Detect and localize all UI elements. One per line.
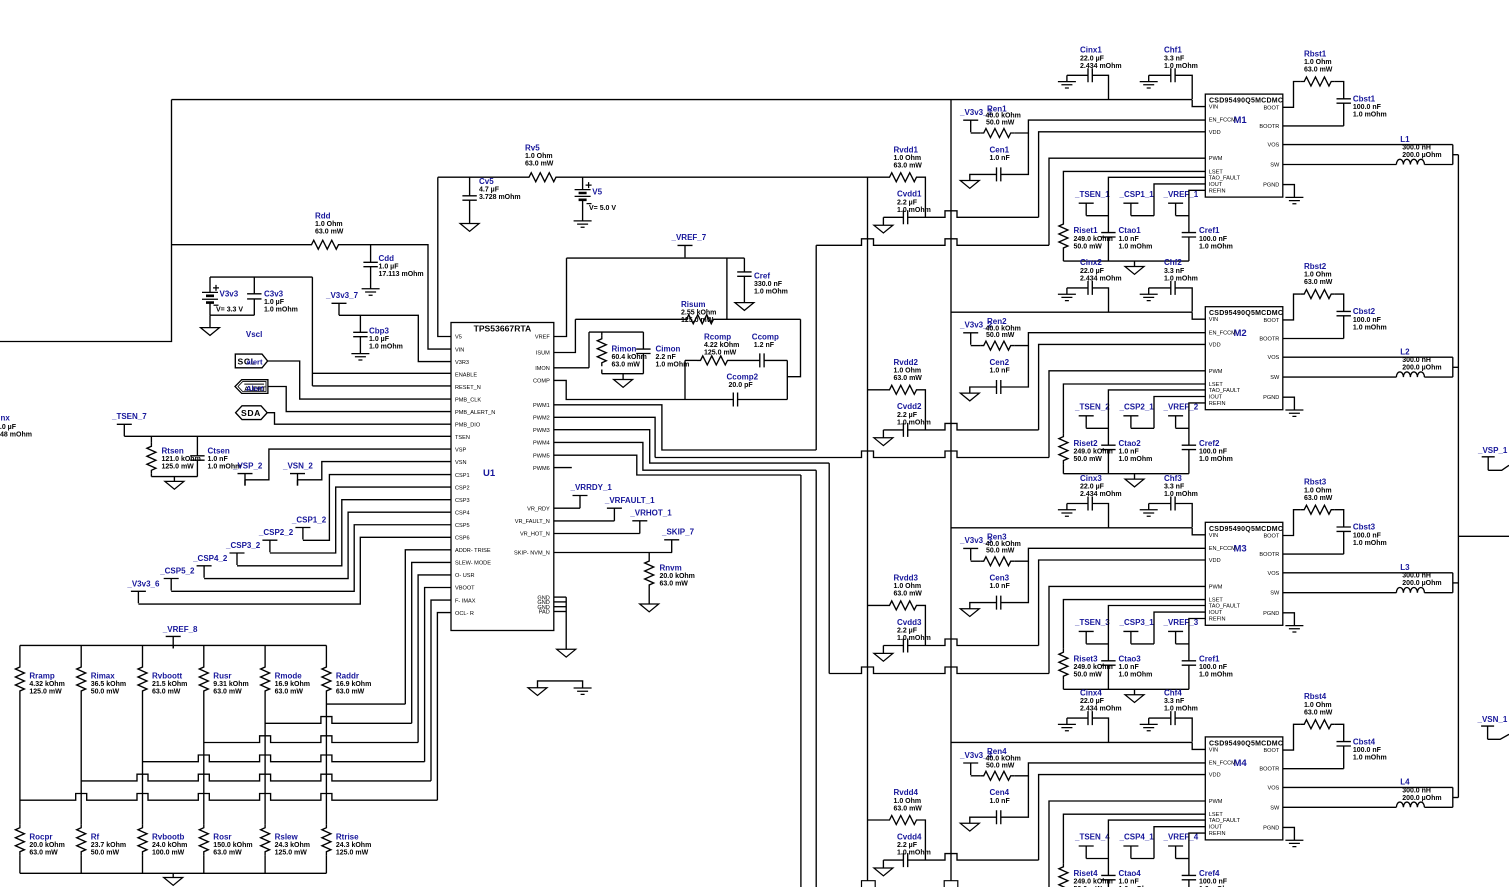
svg-text:Ctao3: Ctao3: [1119, 654, 1142, 663]
net flag _V3v3 (channel 3): [963, 548, 978, 560]
capacitor Cref: [743, 258, 745, 272]
svg-text:VSN: VSN: [455, 460, 467, 466]
svg-text:1.0 mOhm: 1.0 mOhm: [1119, 672, 1153, 679]
svg-text:EN_FCCM: EN_FCCM: [1209, 118, 1236, 124]
svg-text:VDD: VDD: [1209, 342, 1221, 348]
svg-text:CSP2: CSP2: [455, 485, 470, 491]
svg-text:Chf1: Chf1: [1164, 46, 1182, 55]
svg-text:17.113 mOhm: 17.113 mOhm: [379, 271, 424, 278]
capacitor Cvdd2: [883, 429, 903, 431]
capacitor Cinx1: [1067, 74, 1088, 76]
svg-text:9.31 kOhm: 9.31 kOhm: [213, 681, 248, 688]
svg-text:VDD: VDD: [1209, 558, 1221, 564]
wire V5 bus: [867, 177, 869, 880]
wire VIN rail channel 3: [951, 527, 1192, 529]
svg-text:Ctao2: Ctao2: [1119, 439, 1142, 448]
wire RESET_N: [312, 385, 451, 387]
wire PWM3 route: [554, 430, 829, 463]
capacitor Ctao3: [1108, 606, 1205, 661]
port SCL: [235, 354, 267, 368]
svg-text:O- USR: O- USR: [455, 573, 475, 579]
capacitor Ctsen: [196, 436, 198, 456]
wire CSP1: [303, 475, 451, 541]
svg-text:Cbst3: Cbst3: [1353, 523, 1376, 532]
ground for Cen1: [960, 181, 979, 189]
ground for Cvdd2: [882, 430, 884, 438]
svg-text:SDA: SDA: [241, 408, 261, 418]
svg-text:PAD: PAD: [539, 610, 550, 616]
resistor Rnvm: [648, 553, 650, 558]
svg-text:Rramp: Rramp: [29, 671, 54, 680]
capacitor Cinx3: [1067, 503, 1088, 505]
svg-text:Cvdd4: Cvdd4: [897, 832, 922, 841]
capacitor Chf2: [1149, 287, 1171, 289]
capacitor Chf1: [1149, 74, 1171, 76]
svg-text:1.0 mOhm: 1.0 mOhm: [1164, 275, 1198, 282]
ground for Cv5: [460, 224, 479, 232]
svg-text:1.0 mOhm: 1.0 mOhm: [1119, 456, 1153, 463]
svg-text:Cref2: Cref2: [1199, 439, 1220, 448]
ground for Rimon/Cimon: [622, 374, 624, 380]
svg-text:_TSEN_7: _TSEN_7: [111, 412, 147, 421]
svg-text:50.0 mW: 50.0 mW: [986, 120, 1015, 127]
IC U1 TPS53667RTA body: [451, 323, 554, 631]
svg-text:1.0 mOhm: 1.0 mOhm: [656, 362, 690, 369]
wire Rimon box bottom: [602, 373, 644, 375]
net flag _VRFAULT_1: [607, 508, 622, 521]
svg-text:3.3 nF: 3.3 nF: [1164, 698, 1185, 705]
svg-text:2.434 mOhm: 2.434 mOhm: [1080, 491, 1122, 498]
svg-text:Rvdd2: Rvdd2: [894, 358, 919, 367]
svg-text:3.728 mOhm: 3.728 mOhm: [479, 194, 521, 201]
svg-text:_CSP2_2: _CSP2_2: [258, 528, 294, 537]
svg-text:50.0 mW: 50.0 mW: [1074, 243, 1103, 250]
svg-text:Riset2: Riset2: [1074, 439, 1099, 448]
svg-text:PMB_ALERT_N: PMB_ALERT_N: [455, 410, 495, 416]
net flag _V3v3 (channel 2): [963, 333, 978, 345]
svg-text:2.434 mOhm: 2.434 mOhm: [1080, 706, 1122, 713]
svg-text:24.3 kOhm: 24.3 kOhm: [275, 842, 310, 849]
svg-text:1.0 nF: 1.0 nF: [1119, 664, 1140, 671]
svg-text:BOOTR: BOOTR: [1259, 337, 1279, 343]
wire column Raddr down: [325, 695, 327, 825]
svg-text:_TSEN_3: _TSEN_3: [1074, 618, 1110, 627]
svg-text:3.3 nF: 3.3 nF: [1164, 55, 1185, 62]
net flag _VREF_1: [1168, 203, 1183, 215]
svg-text:63.0 mW: 63.0 mW: [894, 163, 923, 170]
svg-text:Vscl: Vscl: [246, 330, 262, 339]
svg-text:REFIN: REFIN: [1209, 831, 1226, 837]
resistor Rv5: [526, 173, 560, 182]
wire VSP_1: [1488, 465, 1509, 470]
svg-text:Cbst2: Cbst2: [1353, 307, 1376, 316]
svg-text:V5: V5: [455, 335, 462, 341]
resistor Ren3: [971, 560, 981, 562]
capacitor Cbst2: [1335, 294, 1344, 311]
svg-text:IOUT: IOUT: [1209, 825, 1223, 831]
svg-text:EN_FCCM: EN_FCCM: [1209, 546, 1236, 552]
resistor Rimax: [80, 645, 82, 663]
ground for Cvdd3: [882, 646, 884, 654]
wire ALERT to PMB_ALERT_N: [268, 387, 451, 412]
svg-text:Rvdd3: Rvdd3: [894, 574, 919, 583]
wire comp left node: [684, 360, 686, 399]
resistor Riset2: [1063, 384, 1205, 433]
resistor Rosr: [199, 824, 208, 855]
svg-text:Rbst1: Rbst1: [1304, 49, 1327, 58]
svg-text:1.0 Ohm: 1.0 Ohm: [894, 798, 922, 805]
wire VR_HOT_N: [554, 533, 640, 535]
resistor Risum: [683, 315, 717, 324]
svg-text:2.2 nF: 2.2 nF: [656, 354, 677, 361]
wire comp right node: [786, 360, 788, 399]
svg-text:VDD: VDD: [1209, 773, 1221, 779]
svg-text:200.0 µOhm: 200.0 µOhm: [1402, 152, 1441, 159]
ground for Cen4: [960, 823, 979, 831]
wire U1 GND stubs: [554, 596, 566, 598]
wire PWM2 route: [554, 417, 655, 457]
svg-text:63.0 mW: 63.0 mW: [660, 581, 689, 588]
svg-text:Cref4: Cref4: [1199, 869, 1220, 878]
wire IOUT channel 3: [1154, 612, 1205, 644]
wire Ccomp2 right: [737, 399, 787, 401]
voltage source V3v3: [209, 277, 211, 292]
wire CSP4: [204, 512, 451, 578]
svg-text:50.0 mW: 50.0 mW: [986, 762, 1015, 769]
wire VREF_7 to Risum: [726, 258, 728, 319]
capacitor Cen2: [970, 387, 997, 393]
svg-text:2.2 µF: 2.2 µF: [897, 199, 918, 206]
ground for Chf1: [1148, 75, 1150, 81]
port SDA: [236, 406, 268, 420]
resistor Rslew: [261, 824, 270, 855]
resistor Rcomp: [685, 359, 697, 361]
svg-text:REFIN: REFIN: [1209, 617, 1226, 623]
wire VIN rail channel 2: [951, 311, 1192, 313]
svg-text:VBOOT: VBOOT: [455, 586, 475, 592]
wire divider bottom rail: [20, 872, 327, 874]
svg-text:VR_FAULT_N: VR_FAULT_N: [515, 519, 550, 525]
svg-text:1.0 nF: 1.0 nF: [990, 368, 1011, 375]
wire O-USR to divider: [418, 575, 451, 743]
capacitor Cvdd3: [883, 645, 903, 647]
svg-text:4.7 µF: 4.7 µF: [479, 187, 500, 194]
net flag _CSP5_2: [164, 579, 179, 591]
wire VDD net channel 3: [907, 639, 1038, 646]
net flag _VSN_2: [290, 474, 305, 486]
svg-text:50.0 mW: 50.0 mW: [1074, 456, 1103, 463]
wire TSEN: [124, 435, 451, 437]
svg-text:22.0 µF: 22.0 µF: [1080, 268, 1105, 275]
svg-text:BOOT: BOOT: [1263, 534, 1279, 540]
svg-text:300.0 nH: 300.0 nH: [1402, 357, 1431, 364]
svg-text:CSD95490Q5MCDMC: CSD95490Q5MCDMC: [1209, 310, 1283, 317]
svg-text:Rslew: Rslew: [275, 832, 299, 841]
svg-text:125.0 mW: 125.0 mW: [29, 689, 62, 696]
resistor Rusr: [203, 645, 205, 663]
svg-text:100.0 nF: 100.0 nF: [1199, 664, 1228, 671]
svg-text:2.434 mOhm: 2.434 mOhm: [1080, 275, 1122, 282]
svg-text:PWM2: PWM2: [533, 416, 550, 422]
wire VIN rail drop to M3: [1192, 528, 1205, 535]
svg-text:1.0 mOhm: 1.0 mOhm: [1353, 540, 1387, 547]
svg-text:1.0 mOhm: 1.0 mOhm: [897, 419, 931, 426]
svg-text:1.0 mOhm: 1.0 mOhm: [1164, 63, 1198, 70]
net flag _CSP2_1: [1123, 416, 1138, 428]
svg-text:nx: nx: [1, 414, 11, 423]
svg-text:22.0 µF: 22.0 µF: [1080, 55, 1105, 62]
resistor Rvdd2: [868, 389, 887, 391]
resistor Rbst4: [1283, 724, 1301, 750]
wire VDD net channel 2: [907, 423, 1038, 430]
svg-text:VOS: VOS: [1267, 785, 1279, 791]
capacitor Cbst4: [1335, 724, 1344, 741]
svg-text:63.0 mW: 63.0 mW: [1304, 495, 1333, 502]
svg-text:VR_HOT_N: VR_HOT_N: [520, 532, 550, 538]
wire VOUT branch to sheet edge: [1458, 535, 1509, 537]
svg-text:_VREF_7: _VREF_7: [671, 233, 707, 242]
svg-text:100.0 mW: 100.0 mW: [152, 850, 185, 857]
svg-text:_CSP4_1: _CSP4_1: [1119, 833, 1155, 842]
ground for Chf2: [1148, 288, 1150, 294]
power stage M2 CSD95490Q5MCDMC body: [1205, 307, 1283, 410]
svg-text:CSP6: CSP6: [455, 536, 470, 542]
svg-text:Rf: Rf: [91, 832, 100, 841]
capacitor Cv5: [469, 177, 471, 196]
svg-text:21.5 kOhm: 21.5 kOhm: [152, 681, 187, 688]
svg-text:1.0 µF: 1.0 µF: [0, 424, 17, 431]
svg-text:23.7 kOhm: 23.7 kOhm: [91, 842, 126, 849]
svg-text:Risum: Risum: [681, 300, 705, 309]
svg-text:Ccomp: Ccomp: [752, 333, 779, 342]
wire COMP: [554, 380, 734, 399]
svg-text:_V3v3_6: _V3v3_6: [126, 579, 160, 588]
svg-text:Cen2: Cen2: [990, 358, 1010, 367]
svg-text:Rdd: Rdd: [315, 212, 331, 221]
svg-text:Cvdd3: Cvdd3: [897, 618, 922, 627]
wire VREF_7 rail: [567, 257, 745, 259]
capacitor Cref1: [1189, 190, 1205, 232]
svg-text:Riset4: Riset4: [1074, 869, 1099, 878]
capacitor Cbst1: [1335, 82, 1344, 99]
ground for divider: [172, 873, 174, 877]
ground for Chf3: [1148, 504, 1150, 510]
ground for Riset1 block: [1134, 261, 1136, 266]
svg-text:Cvdd1: Cvdd1: [897, 190, 922, 199]
svg-text:22.0 µF: 22.0 µF: [1080, 484, 1105, 491]
wire PWM5 route: [554, 455, 801, 475]
svg-text:F- IMAX: F- IMAX: [455, 598, 476, 604]
svg-text:VOS: VOS: [1267, 143, 1279, 149]
net flag _CSP1_2: [295, 528, 310, 540]
inductor L1: [1283, 164, 1397, 166]
ground for M4 PGND: [1283, 827, 1295, 840]
svg-text:TSEN: TSEN: [455, 435, 470, 441]
wire ADDR-TRISE to divider: [405, 550, 451, 704]
svg-text:63.0 mW: 63.0 mW: [1304, 67, 1333, 74]
svg-text:1.0 mOhm: 1.0 mOhm: [1199, 456, 1233, 463]
wire VSN_1: [1488, 734, 1509, 739]
wire Rv5 to V5 bus: [560, 176, 869, 178]
svg-text:Riset3: Riset3: [1074, 654, 1099, 663]
svg-text:Cbp3: Cbp3: [369, 327, 390, 336]
svg-text:BOOTR: BOOTR: [1259, 552, 1279, 558]
resistor Rvbootb: [138, 824, 147, 855]
wire L3 output node: [1452, 573, 1454, 593]
svg-text:PGND: PGND: [1263, 611, 1279, 617]
svg-text:TPS53667RTA: TPS53667RTA: [474, 324, 532, 334]
svg-text:Chf3: Chf3: [1164, 474, 1182, 483]
svg-text:1.0 Ohm: 1.0 Ohm: [525, 153, 553, 160]
wire VREF to VREF_7 rail: [554, 258, 567, 336]
wire PWM4 row hops at sheet bottom: [862, 881, 876, 887]
svg-text:BOOT: BOOT: [1263, 105, 1279, 111]
svg-text:1.0 Ohm: 1.0 Ohm: [894, 583, 922, 590]
svg-text:2.2 µF: 2.2 µF: [897, 842, 918, 849]
svg-text:1.0 mOhm: 1.0 mOhm: [369, 344, 403, 351]
power stage M1 CSD95490Q5MCDMC body: [1205, 94, 1283, 197]
wire IMON: [554, 367, 589, 369]
resistor Rtrise: [322, 824, 331, 855]
svg-text:_TSEN_1: _TSEN_1: [1074, 190, 1110, 199]
svg-text:TAO_FAULT: TAO_FAULT: [1209, 388, 1241, 394]
wire VOS channel 2: [1283, 356, 1453, 358]
svg-text:BOOT: BOOT: [1263, 748, 1279, 754]
svg-text:200.0 µOhm: 200.0 µOhm: [1402, 365, 1441, 372]
svg-text:PWM5: PWM5: [533, 453, 550, 459]
svg-text:Rocpr: Rocpr: [29, 832, 52, 841]
svg-text:50.0 mW: 50.0 mW: [986, 332, 1015, 339]
svg-text:16.9 kOhm: 16.9 kOhm: [336, 681, 371, 688]
wire Risum left: [575, 318, 683, 320]
svg-text:Cinx1: Cinx1: [1080, 46, 1102, 55]
resistor Riset1: [1063, 171, 1205, 220]
svg-text:Cimon: Cimon: [656, 345, 681, 354]
svg-text:1.0 mOhm: 1.0 mOhm: [1353, 324, 1387, 331]
svg-text:63.0 mW: 63.0 mW: [213, 850, 242, 857]
svg-text:_TSEN_2: _TSEN_2: [1074, 403, 1110, 412]
wire column Rmode down: [264, 695, 266, 825]
svg-text:1.0 mOhm: 1.0 mOhm: [1164, 706, 1198, 713]
svg-text:2.2 µF: 2.2 µF: [897, 628, 918, 635]
svg-text:Cen4: Cen4: [990, 788, 1010, 797]
svg-text:_VREF_4: _VREF_4: [1163, 833, 1199, 842]
svg-text:50.0 mW: 50.0 mW: [986, 548, 1015, 555]
svg-text:Rtsen: Rtsen: [162, 447, 184, 456]
voltage source V5: [582, 177, 584, 189]
net flag _VSP_1: [1482, 457, 1495, 471]
svg-text:_TSEN_4: _TSEN_4: [1074, 833, 1110, 842]
svg-text:V= 5.0 V: V= 5.0 V: [589, 205, 616, 212]
svg-text:1.0 nF: 1.0 nF: [208, 456, 229, 463]
svg-text:50.0 mW: 50.0 mW: [91, 850, 120, 857]
capacitor Ctao4: [1108, 820, 1205, 875]
svg-text:V= 3.3 V: V= 3.3 V: [216, 307, 243, 314]
wire V5 pin to rail: [438, 177, 451, 336]
svg-text:CSP5: CSP5: [455, 523, 470, 529]
svg-text:EN_FCCM: EN_FCCM: [1209, 330, 1236, 336]
svg-text:IOUT: IOUT: [1209, 182, 1223, 188]
svg-text:Rosr: Rosr: [213, 832, 231, 841]
wire Ccomp right: [764, 359, 788, 361]
ground for V3v3: [201, 328, 220, 336]
svg-text:_CSP4_2: _CSP4_2: [192, 554, 228, 563]
net flag _VREF_2: [1168, 416, 1183, 428]
wire CSP6: [138, 537, 451, 604]
svg-text:_VRHOT_1: _VRHOT_1: [629, 509, 672, 518]
resistor Ren2: [971, 345, 981, 347]
ground for Cref: [735, 303, 754, 311]
inductor L2: [1283, 376, 1397, 378]
svg-text:_VREF_8: _VREF_8: [162, 625, 198, 634]
ground for Riset3 block: [1134, 689, 1136, 694]
wire iset ground rail channel 1: [1063, 260, 1189, 262]
svg-text:PGND: PGND: [1263, 183, 1279, 189]
svg-text:Raddr: Raddr: [336, 671, 359, 680]
wire Rtsen-Ctsen bottom rail: [151, 476, 197, 478]
svg-text:Cref1: Cref1: [1199, 226, 1220, 235]
wire VR_FAULT_N: [554, 520, 615, 522]
wire ground tie: [538, 681, 583, 688]
svg-text:100.0 nF: 100.0 nF: [1199, 879, 1228, 886]
wire SCL to PMB_CLK: [268, 361, 451, 399]
svg-text:125.0 mW: 125.0 mW: [336, 850, 369, 857]
svg-text:_CSP2_1: _CSP2_1: [1119, 403, 1155, 412]
net flag _V3v3_7: [332, 303, 347, 315]
svg-text:63.0 mW: 63.0 mW: [336, 689, 365, 696]
wire VREF_8 top rail: [20, 644, 327, 646]
ground tie bars: [574, 688, 592, 694]
svg-text:1.0 nF: 1.0 nF: [1119, 879, 1140, 886]
svg-text:60.4 kOhm: 60.4 kOhm: [612, 354, 647, 361]
svg-text:CSD95490Q5MCDMC: CSD95490Q5MCDMC: [1209, 740, 1283, 747]
net flag _CSP2_2: [262, 540, 277, 552]
svg-text:PWM4: PWM4: [533, 441, 550, 447]
wire VOUT rail: [1457, 155, 1459, 798]
wire VDD net channel 1: [907, 211, 1038, 218]
svg-text:VIN: VIN: [1209, 317, 1218, 323]
svg-text:IOUT: IOUT: [1209, 610, 1223, 616]
capacitor Chf3: [1149, 503, 1171, 505]
wire CSP2: [270, 487, 451, 553]
svg-text:Cinx2: Cinx2: [1080, 258, 1102, 267]
svg-text:_VREF_3: _VREF_3: [1163, 618, 1199, 627]
svg-text:Chf4: Chf4: [1164, 688, 1182, 697]
ground for Cinx4: [1066, 718, 1068, 724]
resistor Riset3: [1063, 600, 1205, 649]
svg-text:TAO_FAULT: TAO_FAULT: [1209, 175, 1241, 181]
svg-text:IOUT: IOUT: [1209, 395, 1223, 401]
net flag _VSN_1: [1481, 726, 1494, 739]
ground for M3 PGND: [1283, 613, 1295, 626]
svg-text:20.0 kOhm: 20.0 kOhm: [660, 573, 695, 580]
power stage M3 CSD95490Q5MCDMC body: [1205, 522, 1283, 625]
ground for Rnvm: [640, 604, 659, 612]
svg-text:1.0 mOhm: 1.0 mOhm: [754, 289, 788, 296]
net flag _TSEN_4: [1079, 846, 1094, 858]
svg-text:L3: L3: [1400, 563, 1410, 572]
svg-text:VIN: VIN: [455, 347, 464, 353]
resistor Rbst2: [1283, 294, 1301, 320]
capacitor Cref3: [1189, 619, 1205, 661]
net flag _SKIP_7: [664, 540, 679, 553]
svg-text:Cinx4: Cinx4: [1080, 688, 1102, 697]
svg-text:ISUM: ISUM: [536, 351, 550, 357]
svg-text:Ctsen: Ctsen: [208, 447, 230, 456]
net flag _VREF_7: [678, 245, 693, 257]
wire Rvdd1 to Cvdd1: [920, 177, 925, 217]
svg-text:PWM: PWM: [1209, 584, 1223, 590]
